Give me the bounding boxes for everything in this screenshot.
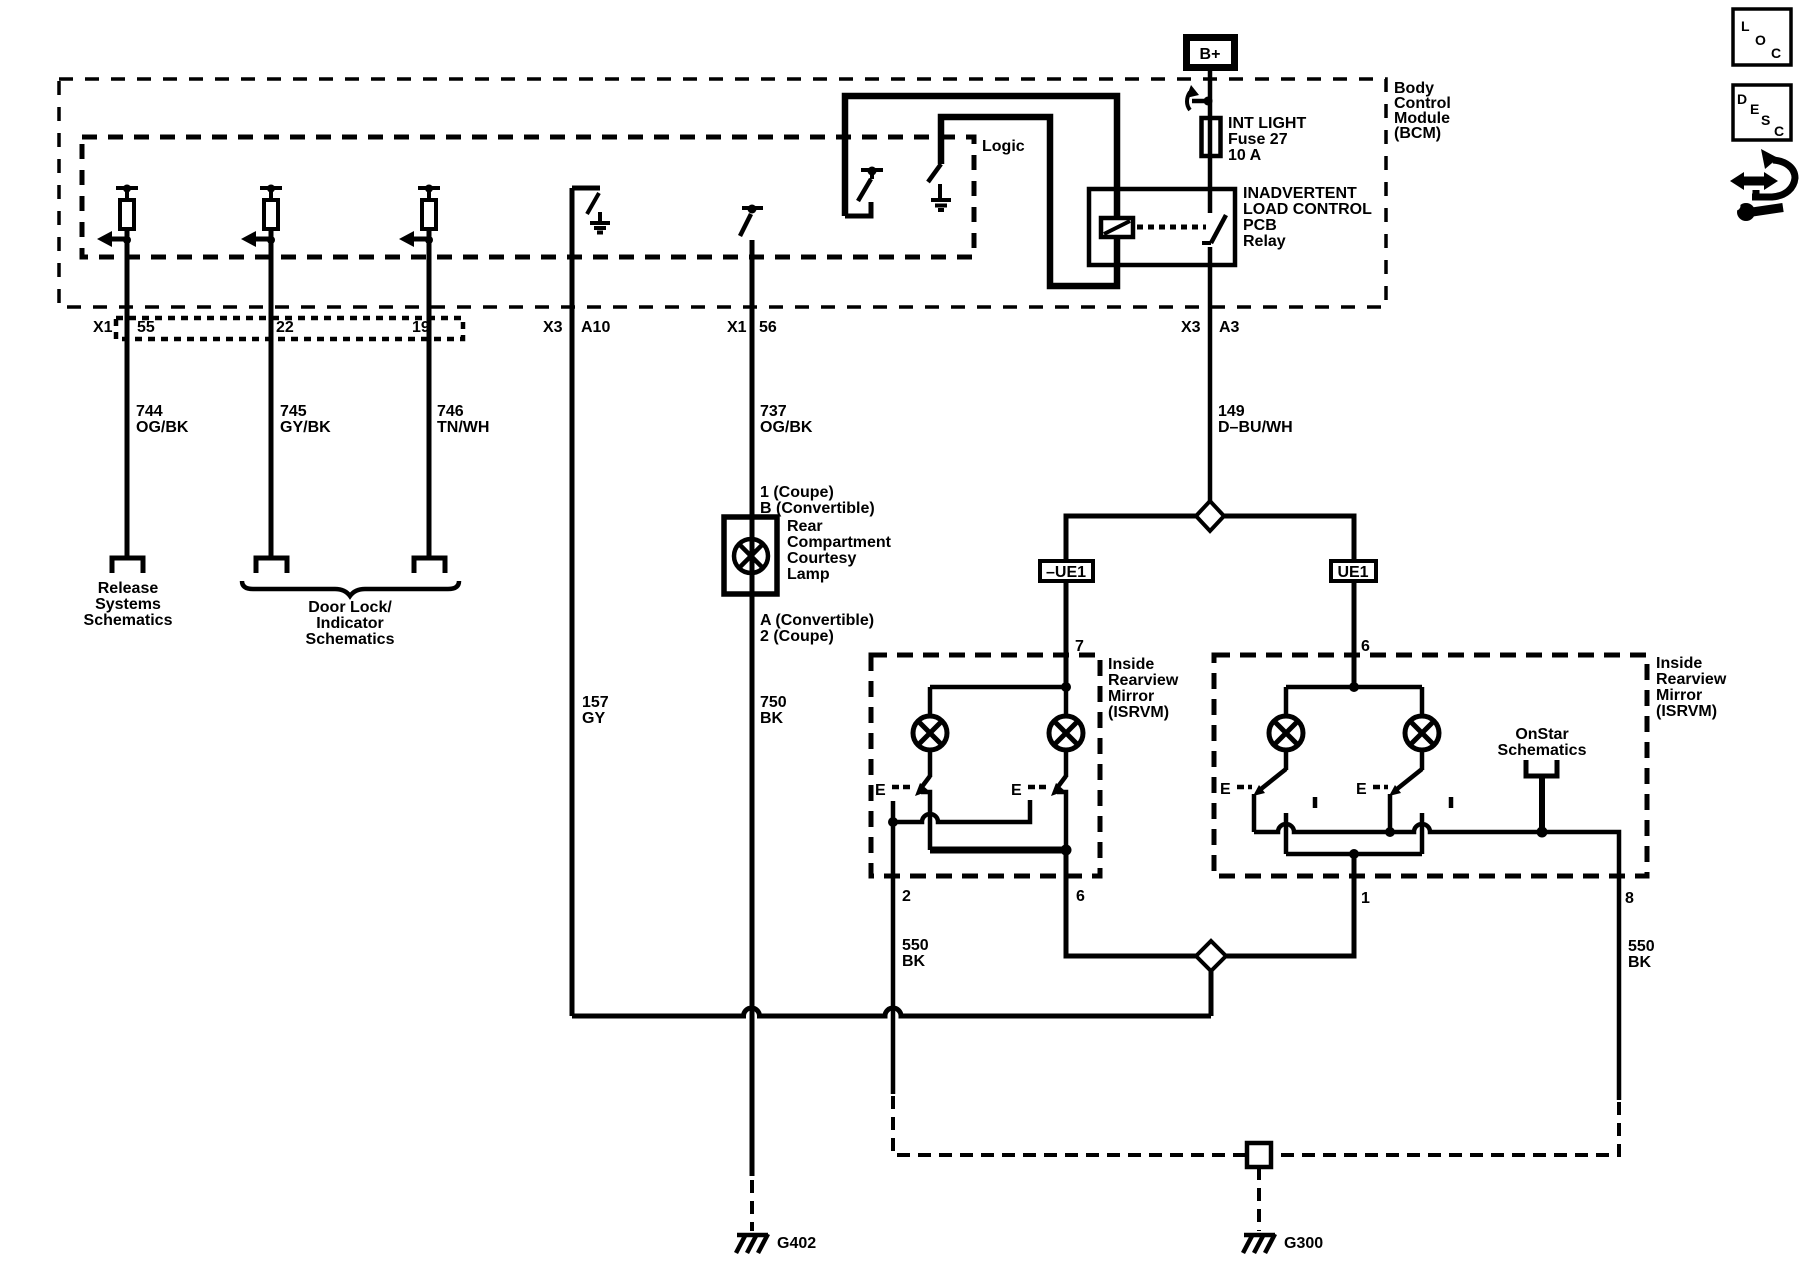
wire to lamp L2 (1064, 687, 1069, 716)
svg-text:(BCM): (BCM) (1394, 125, 1441, 142)
courtesy lamp bulb (734, 539, 768, 573)
svg-text:10 A: 10 A (1228, 147, 1262, 164)
BCM module dashed box (59, 79, 1386, 307)
Logic dashed box (82, 137, 974, 257)
contact tick R2 (1449, 797, 1454, 808)
svg-text:Inside: Inside (1108, 656, 1154, 673)
svg-text:OG/BK: OG/BK (760, 419, 813, 436)
svg-text:Schematics: Schematics (1498, 742, 1587, 759)
wire A3 149 D-BU/WH (1208, 247, 1213, 502)
BCM label (1394, 80, 1451, 142)
wire pin1 to diamond (1226, 854, 1354, 956)
svg-text:750: 750 (760, 694, 787, 711)
switch blade R2 (1389, 769, 1422, 796)
svg-text:A10: A10 (581, 319, 610, 336)
svg-text:B+: B+ (1200, 46, 1221, 63)
wire to lamp L1 (928, 687, 933, 716)
svg-text:D: D (1737, 91, 1747, 107)
svg-text:A3: A3 (1219, 319, 1240, 336)
label X1 56 (727, 319, 777, 336)
svg-text:745: 745 (280, 403, 307, 420)
wire logic S4 to relay coil (845, 96, 1117, 218)
label 1 (Coupe) B (Convertible) (760, 484, 875, 517)
svg-text:55: 55 (137, 319, 155, 336)
contact tick R1 (1313, 797, 1318, 808)
fuse INT LIGHT Fuse 27 10 A (1202, 118, 1221, 156)
junction pin6 (1061, 845, 1072, 856)
svg-text:Rearview: Rearview (1108, 672, 1179, 689)
svg-text:(ISRVM): (ISRVM) (1108, 704, 1169, 721)
svg-text:Lamp: Lamp (787, 566, 830, 583)
lamp bus right box (1286, 685, 1422, 690)
wire to lamp R2 (1420, 687, 1425, 716)
relay contact blade (1202, 215, 1226, 243)
relay linkage dashed (1137, 225, 1206, 230)
wire pin 2 (891, 801, 896, 1094)
svg-text:550: 550 (1628, 938, 1655, 955)
svg-text:Rear: Rear (787, 518, 823, 535)
svg-text:(ISRVM): (ISRVM) (1656, 703, 1717, 720)
switch flag at BCM feed (1186, 85, 1213, 110)
svg-text:6: 6 (1361, 638, 1370, 655)
wire lamp R2 to blade (1420, 750, 1425, 770)
dashed drop to G300 (1257, 1167, 1261, 1231)
svg-text:D–BU/WH: D–BU/WH (1218, 419, 1293, 436)
svg-text:A (Convertible): A (Convertible) (760, 612, 874, 629)
lamp R2 (1405, 716, 1439, 750)
svg-text:56: 56 (759, 319, 777, 336)
splice pack square (1247, 1143, 1271, 1167)
svg-text:G300: G300 (1284, 1235, 1323, 1252)
dome switch 56 in BCM (740, 205, 763, 237)
svg-text:Courtesy: Courtesy (787, 550, 856, 567)
svg-text:Relay: Relay (1243, 233, 1286, 250)
svg-text:OG/BK: OG/BK (136, 419, 189, 436)
logic switch S5 with ground (928, 164, 951, 210)
ground bus with hops (572, 1008, 1211, 1016)
label 550 BK right (1628, 938, 1655, 971)
svg-text:L: L (1741, 18, 1750, 34)
ISRVM right label (1656, 655, 1727, 720)
svg-text:E: E (875, 782, 886, 799)
svg-text:2 (Coupe): 2 (Coupe) (760, 628, 834, 645)
svg-text:Inside: Inside (1656, 655, 1702, 672)
door switch S3 (pin 19) (399, 185, 440, 248)
svg-text:GY: GY (582, 710, 605, 727)
wire -UE1 to pin 7 (1064, 581, 1069, 687)
svg-text:Indicator: Indicator (316, 615, 384, 632)
svg-text:Mirror: Mirror (1108, 688, 1154, 705)
switch blade L1 (915, 776, 930, 796)
svg-text:C: C (1771, 45, 1781, 61)
relay label (1243, 185, 1372, 250)
svg-text:Door Lock/: Door Lock/ (308, 599, 392, 616)
junction pin7 bus (1061, 682, 1071, 692)
svg-text:Logic: Logic (982, 138, 1025, 155)
OnStar drop wire (1539, 776, 1545, 832)
door switch S2 (pin 22) (241, 185, 282, 248)
Rear Compartment Courtesy Lamp label (787, 518, 892, 583)
ground G300 (1243, 1234, 1275, 1253)
svg-text:7: 7 (1075, 638, 1084, 655)
wire lamp L1 to switch (928, 750, 933, 777)
svg-text:Schematics: Schematics (84, 612, 173, 629)
connector pin 55 (112, 558, 143, 573)
svg-text:C: C (1774, 123, 1784, 139)
svg-text:149: 149 (1218, 403, 1245, 420)
svg-text:G402: G402 (777, 1235, 816, 1252)
E actuator L2 (1011, 782, 1050, 799)
svg-text:19: 19 (412, 319, 430, 336)
courtesy lamp wire through (750, 517, 755, 594)
svg-text:1 (Coupe): 1 (Coupe) (760, 484, 834, 501)
B+ power feed (1187, 38, 1235, 68)
wire diamond to UE1 (1224, 516, 1354, 561)
svg-text:Fuse 27: Fuse 27 (1228, 131, 1288, 148)
svg-text:Mirror: Mirror (1656, 687, 1702, 704)
wire pin 55 (744) (125, 229, 130, 558)
svg-text:INADVERTENT: INADVERTENT (1243, 185, 1357, 202)
wire UE1 to pin 6 (1352, 581, 1357, 687)
svg-text:PCB: PCB (1243, 217, 1277, 234)
dashed wire pin8 to splice pack (1273, 1102, 1619, 1155)
wire lamp R1 to blade (1284, 750, 1289, 770)
svg-text:S: S (1761, 112, 1770, 128)
svg-text:LOAD CONTROL: LOAD CONTROL (1243, 201, 1372, 218)
lamp R1 (1269, 716, 1303, 750)
svg-text:X1: X1 (727, 319, 747, 336)
ground G402 (736, 1234, 768, 1253)
svg-text:–UE1: –UE1 (1046, 564, 1086, 581)
wire diamond to ground bus (1209, 971, 1214, 1016)
wire to lamp R1 (1284, 687, 1289, 716)
svg-text:X3: X3 (543, 319, 563, 336)
wire pin 8 550 BK (1617, 876, 1622, 1100)
svg-text:157: 157 (582, 694, 609, 711)
svg-text:BK: BK (1628, 954, 1652, 971)
junction pin1 (1349, 849, 1359, 859)
logic switch S4 (858, 167, 883, 202)
switch R2 pivot wire (1388, 794, 1393, 832)
OnStar connector (1526, 760, 1557, 776)
switch blade R1 (1253, 769, 1286, 796)
svg-text:744: 744 (136, 403, 163, 420)
svg-text:E: E (1750, 101, 1759, 117)
DESC icon box (1733, 85, 1791, 140)
pivot bus to pin 8 with hops (1254, 824, 1619, 876)
label 737 OG/BK (760, 403, 813, 436)
svg-text:6: 6 (1076, 888, 1085, 905)
junction OnStar (1537, 827, 1548, 838)
relay coil (1101, 218, 1133, 237)
junction pin6 bus right box (1349, 682, 1359, 692)
feed wire B+ to relay contact (1208, 71, 1213, 213)
switch R1 pivot wire (1252, 794, 1257, 832)
svg-text:Schematics: Schematics (306, 631, 395, 648)
ground switch A10 in BCM (572, 188, 610, 233)
label 149 D-BU/WH (1218, 403, 1293, 436)
svg-text:1: 1 (1361, 890, 1370, 907)
splice diamond upper (1196, 501, 1224, 531)
svg-text:Compartment: Compartment (787, 534, 892, 551)
lamp L1 (913, 716, 947, 750)
svg-text:BK: BK (760, 710, 784, 727)
OnStar label (1498, 726, 1587, 759)
thick bus to pin 6 (930, 847, 1066, 854)
svg-text:OnStar: OnStar (1515, 726, 1568, 743)
connector X1 dotted box (116, 318, 463, 339)
switch L2 throw wire (1057, 792, 1066, 850)
junction R2 pivot (1385, 827, 1395, 837)
svg-text:X1: X1 (93, 319, 113, 336)
net UE1 box (1331, 561, 1376, 581)
svg-text:550: 550 (902, 937, 929, 954)
ISRVM left dashed box (871, 655, 1100, 876)
lamp L2 (1049, 716, 1083, 750)
svg-text:2: 2 (902, 888, 911, 905)
svg-text:E: E (1356, 781, 1367, 798)
label X3 A3 (1181, 319, 1240, 336)
svg-text:INT LIGHT: INT LIGHT (1228, 115, 1306, 132)
svg-text:GY/BK: GY/BK (280, 419, 331, 436)
svg-text:E: E (1011, 782, 1022, 799)
Door Lock Indicator label (306, 599, 395, 648)
open contact stub R2 (1420, 813, 1425, 854)
wire A10 157 GY (570, 188, 575, 1016)
switch blade L2 (1051, 776, 1066, 796)
wire diamond to -UE1 (1066, 516, 1196, 561)
swap-repair icon (1730, 149, 1795, 221)
door switch S1 (pin 55) (97, 185, 138, 248)
splice diamond lower (1196, 941, 1226, 971)
E actuator R2 (1356, 781, 1388, 798)
svg-text:746: 746 (437, 403, 464, 420)
E actuator R1 (1220, 781, 1252, 798)
label X3 A10 (543, 319, 610, 336)
label INT LIGHT Fuse 27 10 A (1228, 115, 1306, 164)
ISRVM left label (1108, 656, 1179, 721)
logic switch S4 hook (845, 202, 871, 216)
E actuator L1 (875, 782, 914, 799)
lamp bus left box (930, 685, 1066, 690)
connector pin 22 (256, 558, 287, 573)
LOC icon box (1733, 9, 1791, 65)
svg-text:UE1: UE1 (1337, 564, 1368, 581)
Release Systems label (84, 580, 173, 629)
label A (Convertible) 2 (Coupe) (760, 612, 874, 645)
relay box INADVERTENT LOAD CONTROL PCB (1089, 189, 1235, 265)
pin2 cross bus with hop (893, 800, 1030, 822)
svg-text:22: 22 (276, 319, 294, 336)
dashed wire pin2 to splice pack (893, 1096, 1245, 1155)
wire pin 22 (745) (269, 229, 274, 558)
label 745 GY/BK (280, 403, 331, 436)
wire 750 BK (750, 594, 755, 1176)
open contact stub R1 (1284, 813, 1289, 854)
svg-text:O: O (1755, 32, 1766, 48)
brace Door Lock (242, 581, 459, 596)
wire 56 737 OG/BK (750, 240, 755, 517)
svg-text:Release: Release (98, 580, 159, 597)
svg-text:X3: X3 (1181, 319, 1201, 336)
label 750 BK (760, 694, 787, 727)
switch L1 throw wire (921, 792, 930, 850)
label 744 OG/BK (136, 403, 189, 436)
wire relay coil to logic S5 (941, 117, 1117, 286)
svg-text:Systems: Systems (95, 596, 161, 613)
wire pin6 to diamond (1066, 850, 1196, 956)
wire 750 dashed to ground (750, 1180, 754, 1231)
svg-text:Rearview: Rearview (1656, 671, 1727, 688)
net -UE1 box (1040, 561, 1093, 581)
svg-text:TN/WH: TN/WH (437, 419, 489, 436)
label 746 TN/WH (437, 403, 489, 436)
label 550 BK left (902, 937, 929, 970)
wire lamp L2 to switch (1064, 750, 1069, 777)
lower bus to pin 1 (1286, 852, 1422, 857)
svg-text:737: 737 (760, 403, 787, 420)
wire pin 19 (746) (427, 229, 432, 558)
label 157 GY (582, 694, 609, 727)
ISRVM right dashed box (1214, 655, 1647, 876)
junction pin2 (888, 817, 898, 827)
svg-text:E: E (1220, 781, 1231, 798)
connector pin 19 (414, 558, 445, 573)
svg-text:BK: BK (902, 953, 926, 970)
courtesy lamp box (724, 517, 777, 594)
svg-text:8: 8 (1625, 890, 1634, 907)
